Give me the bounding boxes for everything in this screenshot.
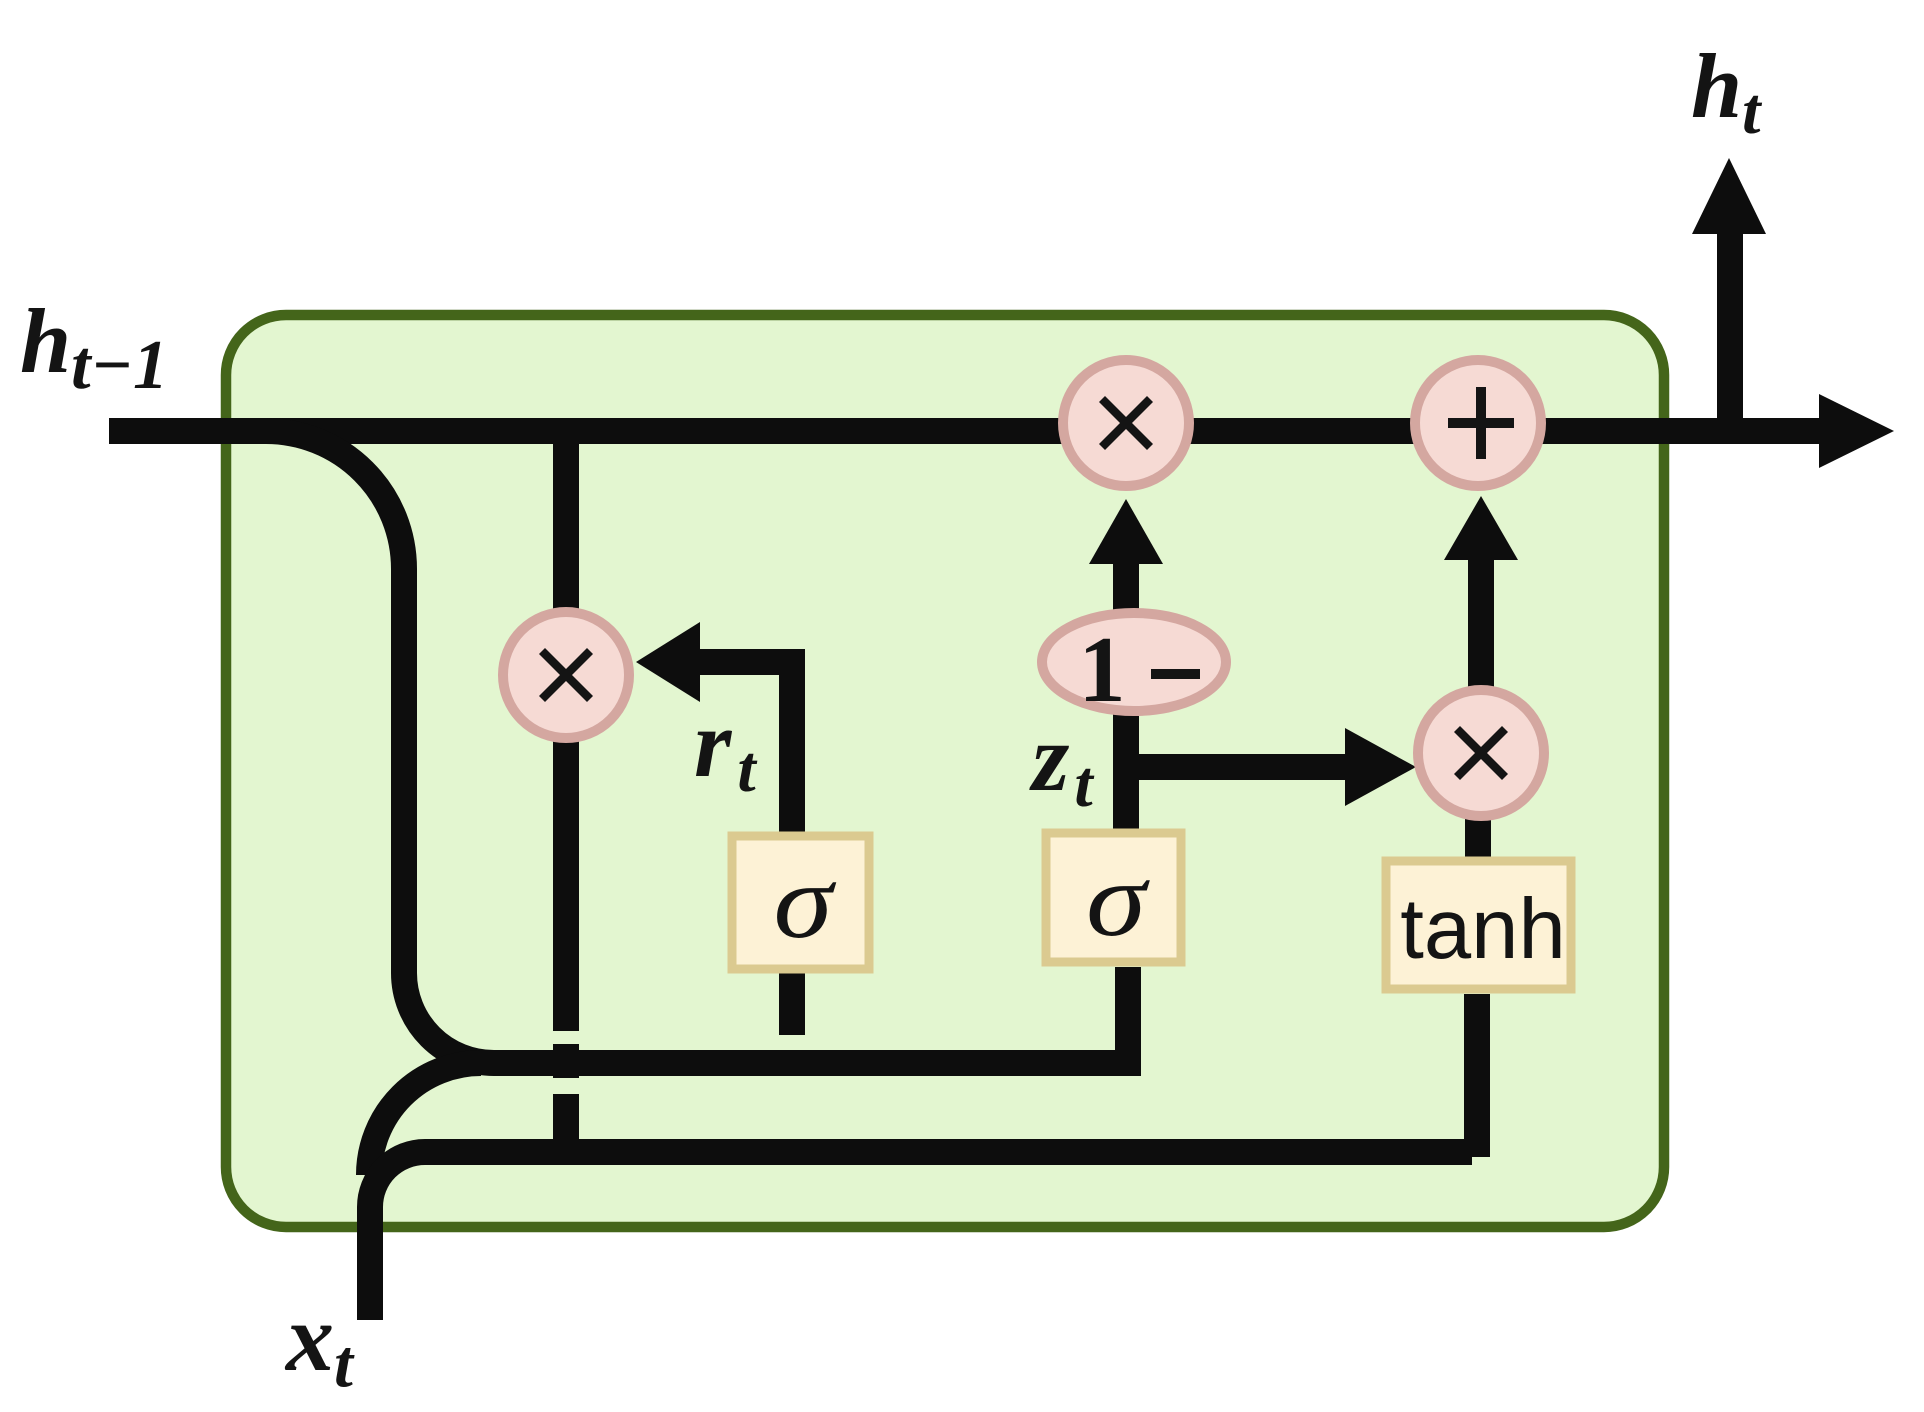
arrowhead r_t into left multiply <box>636 622 700 702</box>
wire tanh input vertical <box>1464 994 1490 1157</box>
operator node 1-minus ellipse <box>1042 613 1226 711</box>
arrowhead output right <box>1819 394 1894 468</box>
operator node plus <box>1415 360 1541 486</box>
wire x_t main run to tanh <box>370 1152 1472 1320</box>
wire left multiply to tanh line segment <box>553 1094 579 1155</box>
GRU cell body <box>226 315 1664 1227</box>
wire x_t split curve to gate line <box>369 1063 481 1175</box>
wire left multiply down segment <box>553 740 579 1031</box>
operator node left multiply <box>503 612 629 738</box>
svg-text:tanh: tanh <box>1400 882 1565 977</box>
svg-text:ht−1: ht−1 <box>20 290 168 404</box>
gate tanh box <box>1386 861 1571 989</box>
wire h_{t-1} main horizontal line <box>109 418 1828 444</box>
arrowhead h_t up <box>1692 158 1766 234</box>
wire h branch to gates (curve down, bottom run to sigma-z) <box>266 431 1128 1063</box>
wire sigma-r bottom stub <box>779 972 805 1035</box>
wire tanh to right multiply <box>1465 815 1491 862</box>
operator node top multiply <box>1063 360 1189 486</box>
operator node right multiply <box>1418 690 1544 816</box>
wire h to left multiply <box>553 431 579 612</box>
svg-text:xt: xt <box>284 1284 355 1401</box>
gate sigma-z box <box>1046 833 1181 962</box>
wire crossing nub at gate line <box>553 1044 579 1078</box>
wire z_t to right multiply <box>1126 754 1345 780</box>
wire sigma-z to 1-minus <box>1113 700 1139 829</box>
svg-text:1: 1 <box>1079 618 1126 722</box>
gate sigma-r box <box>732 836 869 969</box>
wire 1-minus to top multiply <box>1113 562 1139 612</box>
arrowhead into top multiply <box>1089 499 1163 564</box>
wire r_t from sigma-r to left multiply <box>700 662 792 840</box>
arrowhead z_t into right multiply <box>1345 728 1416 806</box>
wire right multiply to plus <box>1468 558 1494 692</box>
arrowhead into plus <box>1444 496 1518 560</box>
svg-text:ht: ht <box>1691 35 1762 148</box>
svg-text:σ: σ <box>774 843 837 960</box>
wire h_t vertical output <box>1717 232 1743 444</box>
svg-text:σ: σ <box>1086 841 1150 958</box>
